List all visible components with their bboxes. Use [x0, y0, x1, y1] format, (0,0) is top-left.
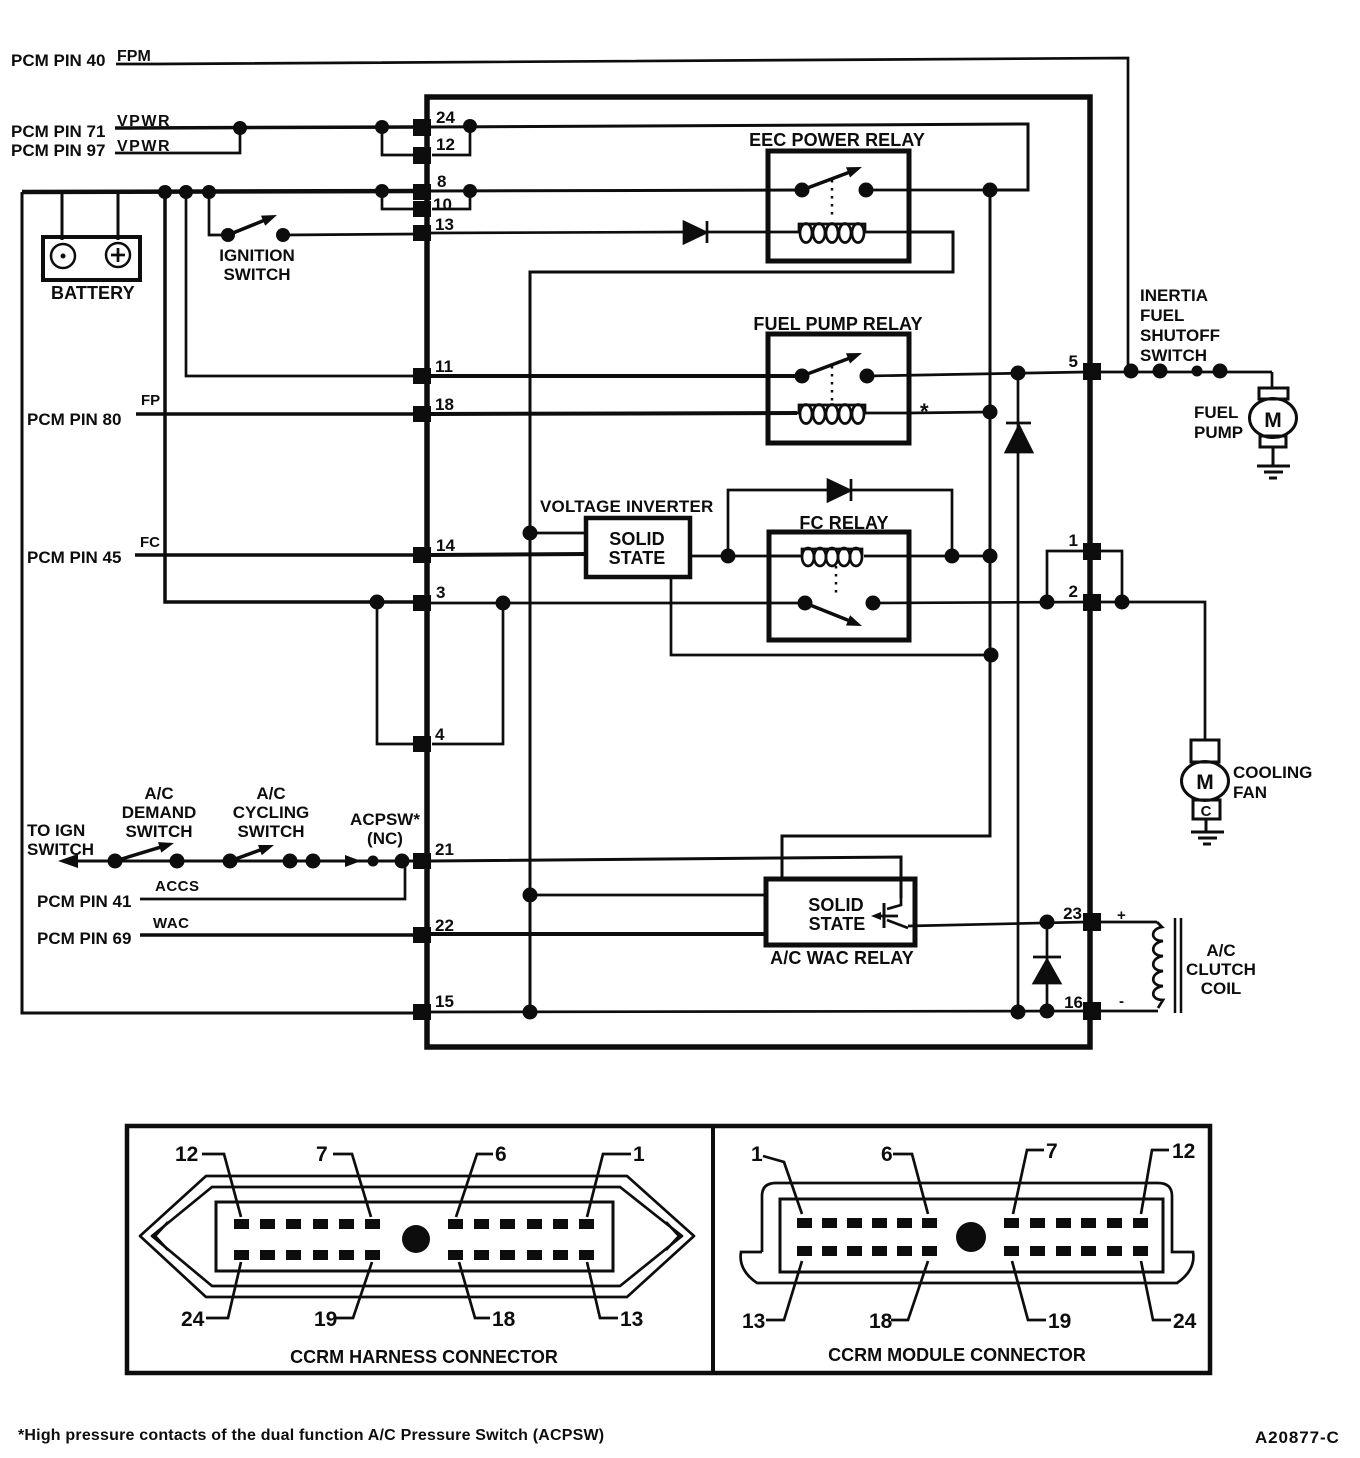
- junction pin2 external: [1115, 595, 1130, 610]
- wire battery negative lead: [22, 192, 62, 240]
- node A/C DEMAND SWITCH label: [122, 784, 197, 841]
- node A/C CLUTCH COIL label: [1186, 941, 1256, 998]
- junction pin2 internal: [1040, 595, 1055, 610]
- connector CCRM module outline: [741, 1183, 1194, 1283]
- svg-text:6: 6: [495, 1143, 507, 1166]
- wire fuel pump relay switch output to pin 5: [867, 372, 1086, 376]
- junction pin3 right loop: [496, 596, 511, 611]
- svg-text:COIL: COIL: [1201, 979, 1242, 998]
- svg-text:(NC): (NC): [367, 829, 403, 848]
- svg-text:VOLTAGE INVERTER: VOLTAGE INVERTER: [540, 497, 714, 516]
- svg-text:FUEL: FUEL: [1194, 403, 1238, 422]
- svg-text:6: 6: [881, 1143, 893, 1166]
- node CCRM HARNESS CONNECTOR label: [290, 1347, 558, 1367]
- wire pin 4 loop: [377, 602, 503, 744]
- junction x530 bottom: [523, 1005, 538, 1020]
- svg-text:SOLID: SOLID: [609, 529, 665, 549]
- connector module pin labels: [742, 1140, 1197, 1333]
- svg-text:FUEL: FUEL: [1140, 306, 1184, 325]
- svg-text:18: 18: [492, 1308, 516, 1331]
- svg-text:ACCS: ACCS: [155, 878, 200, 895]
- svg-text:24: 24: [181, 1308, 205, 1331]
- svg-text:M: M: [1196, 771, 1214, 794]
- svg-text:A20877-C: A20877-C: [1255, 1428, 1340, 1447]
- svg-text:14: 14: [436, 536, 455, 555]
- junction B+ pin10 branch: [375, 184, 389, 198]
- wire AC switch chain: [66, 860, 418, 863]
- svg-text:PCM PIN 97: PCM PIN 97: [11, 141, 105, 160]
- wire pin 12 internal stub: [432, 126, 470, 155]
- svg-text:CLUTCH: CLUTCH: [1186, 960, 1256, 979]
- motor fuel pump: [1250, 388, 1297, 465]
- svg-text:A/C WAC RELAY: A/C WAC RELAY: [770, 948, 914, 968]
- wire pin 15 internal row: [430, 1011, 1086, 1012]
- junction flyback bottom: [1040, 1004, 1055, 1019]
- svg-text:SHUTOFF: SHUTOFF: [1140, 326, 1220, 345]
- svg-text:18: 18: [869, 1310, 893, 1333]
- svg-text:CYCLING: CYCLING: [233, 803, 310, 822]
- svg-text:PCM PIN 45: PCM PIN 45: [27, 548, 121, 567]
- ignition switch: [209, 192, 290, 242]
- diode CR1 EEC coil: [684, 221, 767, 243]
- svg-text:24: 24: [1173, 1310, 1197, 1333]
- svg-text:M: M: [1264, 409, 1282, 432]
- diode CR3 FC relay loop: [728, 479, 952, 556]
- pin number labels left: [433, 108, 455, 1011]
- svg-text:FUEL PUMP RELAY: FUEL PUMP RELAY: [753, 314, 922, 334]
- wire EEC switch output: [866, 189, 1028, 192]
- svg-text:PCM PIN 69: PCM PIN 69: [37, 929, 131, 948]
- junction x530 WAC tap: [523, 888, 538, 903]
- wire ground left rail: [22, 192, 418, 1013]
- junction B+ x186: [179, 185, 193, 199]
- svg-text:12: 12: [175, 1143, 198, 1166]
- junction pin24 row stub: [463, 119, 477, 133]
- relay FC RELAY: [799, 513, 888, 533]
- connector outer box: [127, 1126, 1210, 1373]
- relay FUEL PUMP RELAY: [753, 314, 922, 334]
- junction inverter output: [721, 549, 736, 564]
- wire ignition to pin 13: [283, 234, 418, 235]
- svg-text:SWITCH: SWITCH: [1140, 346, 1207, 365]
- wire FC coil to B+ vertical: [864, 555, 990, 558]
- junction inverter return: [984, 648, 999, 663]
- wire pin 11 feed from B+: [186, 192, 418, 376]
- label A20877-C: [1255, 1428, 1340, 1447]
- node COOLING FAN label: [1233, 763, 1312, 802]
- pin squares left edge: [413, 119, 431, 1020]
- svg-text:7: 7: [316, 1143, 328, 1166]
- svg-text:2: 2: [1069, 582, 1078, 601]
- svg-text:FPM: FPM: [117, 48, 151, 65]
- svg-text:12: 12: [436, 135, 455, 154]
- junction diode line top: [1011, 366, 1026, 381]
- switch AC demand: [108, 842, 185, 868]
- wire pin 8 internal row: [430, 190, 803, 191]
- junction B+ vertical top: [983, 183, 998, 198]
- node FUEL PUMP label: [1194, 403, 1243, 442]
- connector harness pin labels: [175, 1143, 645, 1331]
- wire pin 12 outer stub: [382, 127, 414, 155]
- switch AC cycling: [223, 845, 298, 869]
- svg-text:FP: FP: [141, 392, 160, 409]
- svg-text:IGNITION: IGNITION: [219, 246, 295, 265]
- svg-text:22: 22: [435, 916, 454, 935]
- transistor WAC output: [871, 898, 908, 928]
- arrow to ign switch: [58, 854, 78, 868]
- svg-text:COOLING: COOLING: [1233, 763, 1312, 782]
- node PCM PIN 40 label: [11, 48, 151, 70]
- node BATTERY label: [51, 283, 135, 303]
- svg-text:13: 13: [742, 1310, 765, 1333]
- label clutch polarity: [1117, 907, 1126, 1010]
- svg-text:15: 15: [435, 992, 454, 1011]
- junction diode line bottom: [1011, 1005, 1026, 1020]
- svg-text:-: -: [1119, 993, 1124, 1010]
- svg-text:INERTIA: INERTIA: [1140, 286, 1208, 305]
- relay EEC POWER RELAY: [749, 130, 925, 150]
- svg-text:PCM PIN 40: PCM PIN 40: [11, 51, 105, 70]
- junction VPWR pin12 branch: [375, 120, 389, 134]
- node PCM PIN 41 label: [37, 878, 200, 911]
- svg-text:*: *: [920, 399, 929, 424]
- node TO IGN SWITCH label: [27, 821, 94, 859]
- svg-text:19: 19: [1048, 1310, 1071, 1333]
- svg-text:11: 11: [435, 357, 453, 376]
- wire battery positive lead: [117, 192, 120, 240]
- junction flyback top: [1040, 915, 1055, 930]
- wire pin 18 row FP: [136, 412, 418, 416]
- connector module pins: [797, 1218, 1148, 1256]
- pin squares right edge: [1083, 363, 1101, 1020]
- wire x530 tap to WAC: [530, 894, 766, 897]
- svg-text:ACPSW*: ACPSW*: [350, 810, 420, 829]
- node PCM PIN 80 label: [27, 392, 160, 429]
- node ACPSW label: [350, 810, 420, 848]
- wire pin 13 internal row: [430, 232, 684, 233]
- node PCM PIN 45 label: [27, 534, 160, 567]
- wire VPWR 97 branch: [115, 128, 240, 153]
- svg-text:+: +: [1117, 907, 1126, 924]
- connector CCRM harness outline: [140, 1176, 694, 1297]
- wire pin 22 internal row: [430, 932, 766, 936]
- node PCM PIN 71 label: [11, 113, 171, 141]
- svg-text:PUMP: PUMP: [1194, 423, 1243, 442]
- svg-text:18: 18: [435, 395, 454, 414]
- wire pin 14 internal: [430, 554, 586, 555]
- node INERTIA FUEL SHUTOFF SWITCH label: [1140, 286, 1220, 365]
- wire WAC output to pin 23: [908, 922, 1086, 926]
- svg-text:TO IGN: TO IGN: [27, 821, 85, 840]
- svg-text:*High pressure contacts of the: *High pressure contacts of the dual func…: [18, 1427, 604, 1444]
- svg-text:FC: FC: [140, 534, 160, 551]
- coil A/C clutch: [1096, 918, 1181, 1013]
- svg-text:4: 4: [435, 725, 445, 744]
- connector harness pins: [234, 1219, 594, 1260]
- svg-text:DEMAND: DEMAND: [122, 803, 197, 822]
- wire inverter return to B+ vertical: [671, 577, 991, 655]
- inverter VOLTAGE INVERTER: [540, 497, 714, 516]
- switch ACPSW NC: [306, 854, 410, 869]
- wire B+ internal vertical: [782, 190, 990, 879]
- wire pin 10 internal stub: [432, 191, 470, 209]
- wire pin 3 internal row: [430, 602, 805, 605]
- wire pin 1 jumper internal: [1047, 551, 1086, 602]
- junction B+ x165: [158, 185, 172, 199]
- svg-text:PCM PIN 80: PCM PIN 80: [27, 410, 121, 429]
- junction pin8 row stub: [463, 184, 477, 198]
- svg-text:12: 12: [1172, 1140, 1195, 1163]
- wire pin 10 outer stub: [382, 191, 414, 209]
- wire inverter supply from x530: [530, 532, 586, 535]
- wire VPWR to pin 24: [115, 127, 418, 128]
- wire pin 2 to cooling fan: [1096, 602, 1205, 740]
- wire pin 11 row: [430, 374, 802, 378]
- wire fuel pump relay coil return: [909, 412, 990, 413]
- wire to fuel pump: [1271, 372, 1274, 388]
- junction FC coil B+: [983, 549, 998, 564]
- node IGNITION SWITCH label: [219, 246, 295, 284]
- junction coil return at B+ vertical: [983, 405, 998, 420]
- svg-text:1: 1: [633, 1143, 645, 1166]
- svg-text:SWITCH: SWITCH: [237, 822, 304, 841]
- diode CR4 flyback: [1033, 922, 1061, 1011]
- junction B+ x209: [202, 185, 216, 199]
- svg-text:SWITCH: SWITCH: [223, 265, 290, 284]
- CCRM module box: [427, 97, 1090, 1047]
- svg-text:EEC POWER RELAY: EEC POWER RELAY: [749, 130, 925, 150]
- svg-text:7: 7: [1046, 1140, 1058, 1163]
- wire pin 24 internal row: [430, 124, 1028, 190]
- label asterisk coil: [920, 399, 929, 424]
- svg-text:8: 8: [437, 172, 446, 191]
- svg-text:STATE: STATE: [609, 548, 666, 568]
- svg-text:23: 23: [1063, 904, 1082, 923]
- footnote: [18, 1427, 604, 1444]
- wire pin 18 internal: [430, 413, 797, 414]
- motor cooling fan: [1182, 740, 1229, 832]
- wire FC switch output to pin 2: [873, 602, 1086, 603]
- wire pin 3 row feed from B+: [165, 192, 418, 602]
- svg-text:A/C: A/C: [144, 784, 173, 803]
- svg-text:1: 1: [751, 1143, 763, 1166]
- svg-text:BATTERY: BATTERY: [51, 283, 135, 303]
- junction x530 inverter: [523, 526, 538, 541]
- wire pin 1 jumper external: [1096, 551, 1122, 602]
- svg-text:PCM PIN 71: PCM PIN 71: [11, 122, 105, 141]
- switch inertia fuel shutoff: [1096, 364, 1272, 379]
- wire FPM net: [116, 58, 1128, 371]
- svg-text:A/C: A/C: [1206, 941, 1235, 960]
- svg-text:SWITCH: SWITCH: [27, 840, 94, 859]
- svg-text:1: 1: [1069, 531, 1078, 550]
- svg-text:SOLID: SOLID: [808, 895, 864, 915]
- svg-text:FAN: FAN: [1233, 783, 1267, 802]
- wire pin 22 row WAC: [140, 933, 418, 937]
- connector harness leaders: [202, 1154, 631, 1318]
- diode CR2 vertical: [1006, 373, 1032, 1012]
- svg-text:21: 21: [435, 840, 454, 859]
- node A/C CYCLING SWITCH label: [233, 784, 310, 841]
- node A/C WAC RELAY label: [770, 948, 914, 968]
- svg-text:24: 24: [436, 108, 455, 127]
- svg-text:CCRM HARNESS CONNECTOR: CCRM HARNESS CONNECTOR: [290, 1347, 558, 1367]
- svg-text:5: 5: [1069, 352, 1078, 371]
- node PCM PIN 69 label: [37, 915, 190, 948]
- svg-text:C: C: [1201, 803, 1212, 820]
- svg-text:CCRM MODULE CONNECTOR: CCRM MODULE CONNECTOR: [828, 1345, 1086, 1365]
- relay A/C WAC solid state: [766, 879, 915, 945]
- ground cooling fan: [1191, 832, 1224, 844]
- wire pin 14 row FC: [135, 553, 418, 557]
- battery B+ rail: [22, 191, 418, 192]
- wire ACCS: [140, 861, 405, 899]
- svg-text:WAC: WAC: [153, 915, 190, 932]
- node CCRM MODULE CONNECTOR label: [828, 1345, 1086, 1365]
- svg-text:3: 3: [436, 583, 445, 602]
- junction pin3 left loop: [370, 595, 385, 610]
- node PCM PIN 97 label: [11, 138, 171, 160]
- battery: [43, 237, 140, 280]
- junction diode loop right: [945, 549, 960, 564]
- svg-text:STATE: STATE: [809, 914, 866, 934]
- wire inverter output to FC coil: [690, 555, 800, 558]
- wire EEC coil return loop: [530, 232, 953, 1012]
- svg-text:16: 16: [1064, 993, 1083, 1012]
- svg-text:SWITCH: SWITCH: [125, 822, 192, 841]
- wire pin 21 internal row: [430, 857, 901, 898]
- svg-text:A/C: A/C: [256, 784, 285, 803]
- svg-text:PCM PIN 41: PCM PIN 41: [37, 892, 131, 911]
- svg-text:13: 13: [620, 1308, 643, 1331]
- svg-text:10: 10: [433, 195, 452, 214]
- svg-text:13: 13: [435, 215, 454, 234]
- svg-text:19: 19: [314, 1308, 337, 1331]
- connector module leaders: [763, 1150, 1171, 1320]
- ground fuel pump: [1257, 466, 1290, 478]
- pin number labels right: [1063, 352, 1083, 1012]
- junction VPWR: [233, 121, 247, 135]
